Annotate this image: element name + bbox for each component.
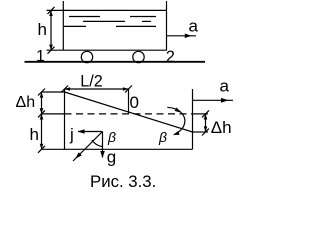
vector j head [78, 129, 85, 133]
cart bottom [63, 49, 166, 51]
mid level dashed line [65, 113, 193, 115]
L/2 left tick [61, 86, 68, 93]
water dash row1 left [69, 16, 100, 18]
svg-text:2: 2 [166, 48, 175, 66]
svg-text:Δh: Δh [211, 118, 232, 137]
svg-text:a: a [189, 17, 199, 36]
water dash row2 left [83, 20, 125, 22]
arrow a top shaft [167, 35, 196, 37]
vector g shaft [102, 132, 104, 158]
svg-text:Δh: Δh [16, 94, 36, 111]
vector j shaft [78, 131, 103, 133]
arrow a lower head [221, 98, 229, 103]
svg-text:L/2: L/2 [80, 72, 103, 90]
svg-text:β: β [107, 129, 116, 145]
left dim mid arrowhead up [40, 108, 44, 114]
svg-text:g: g [107, 147, 116, 166]
dimension h top arrowhead [49, 10, 53, 16]
water dash row1 right [130, 16, 156, 18]
svg-text:Рис. 3.3.: Рис. 3.3. [90, 172, 156, 191]
dimension h vertical line [50, 10, 52, 50]
svg-text:1: 1 [36, 48, 45, 65]
left dim mid tick [38, 110, 45, 117]
beta1 arc [92, 140, 103, 147]
dimension h bottom tick [48, 47, 55, 54]
tank left wall [64, 89, 66, 149]
L/2 right arrowhead [123, 87, 129, 91]
right dim top arrowhead [204, 114, 208, 120]
L/2 dimension line [65, 88, 129, 90]
left dim top arrowhead [40, 92, 44, 98]
right dim bottom arrowhead [204, 126, 208, 132]
arrow a top head [185, 34, 192, 39]
ground line [25, 61, 206, 63]
top-left extension line [41, 91, 65, 93]
dimension h bottom arrowhead [49, 45, 53, 51]
cart left wall [62, 1, 64, 50]
cart bottom extension to dimension [47, 49, 64, 51]
left dim mid arrowhead down [40, 114, 44, 120]
water dash row3 left [64, 25, 86, 27]
svg-text:0: 0 [130, 93, 139, 112]
beta2 arc top arrowhead [175, 107, 181, 112]
arrow a lower shaft [193, 99, 234, 101]
resultant vector shaft [73, 132, 103, 162]
left dimension vertical line [41, 92, 43, 149]
svg-text:j: j [69, 125, 74, 144]
right dim vertical line [205, 114, 207, 132]
cart right wall [166, 1, 168, 50]
L/2 left arrowhead [65, 87, 71, 91]
svg-text:a: a [220, 77, 230, 96]
svg-text:h: h [30, 125, 39, 144]
dimension h top tick [48, 7, 55, 14]
mid level right extension [193, 113, 209, 115]
beta2 arc bottom arrowhead [173, 131, 180, 135]
mid level solid left part [41, 113, 65, 115]
water surface line [47, 9, 167, 11]
L/2 right tick [125, 86, 132, 93]
center line [128, 89, 130, 114]
tank right wall [192, 89, 194, 149]
right dim top tick [202, 110, 209, 117]
beta2 arc [167, 107, 185, 134]
water dash row3 right [116, 25, 156, 27]
wheel right [133, 51, 144, 62]
left dim top tick [38, 89, 45, 96]
left dim bottom tick [38, 146, 45, 153]
right dim bottom tick [202, 129, 209, 136]
tilted liquid surface [65, 92, 193, 132]
wheel left [81, 51, 92, 62]
vector g head [100, 151, 105, 158]
surface right extension [193, 131, 209, 133]
svg-text:h: h [38, 20, 47, 39]
svg-text:β: β [158, 129, 167, 145]
tank bottom with extension [42, 148, 193, 150]
water dash row2 right [142, 20, 151, 22]
left dim bottom arrowhead [40, 144, 44, 150]
resultant vector head [75, 152, 82, 159]
